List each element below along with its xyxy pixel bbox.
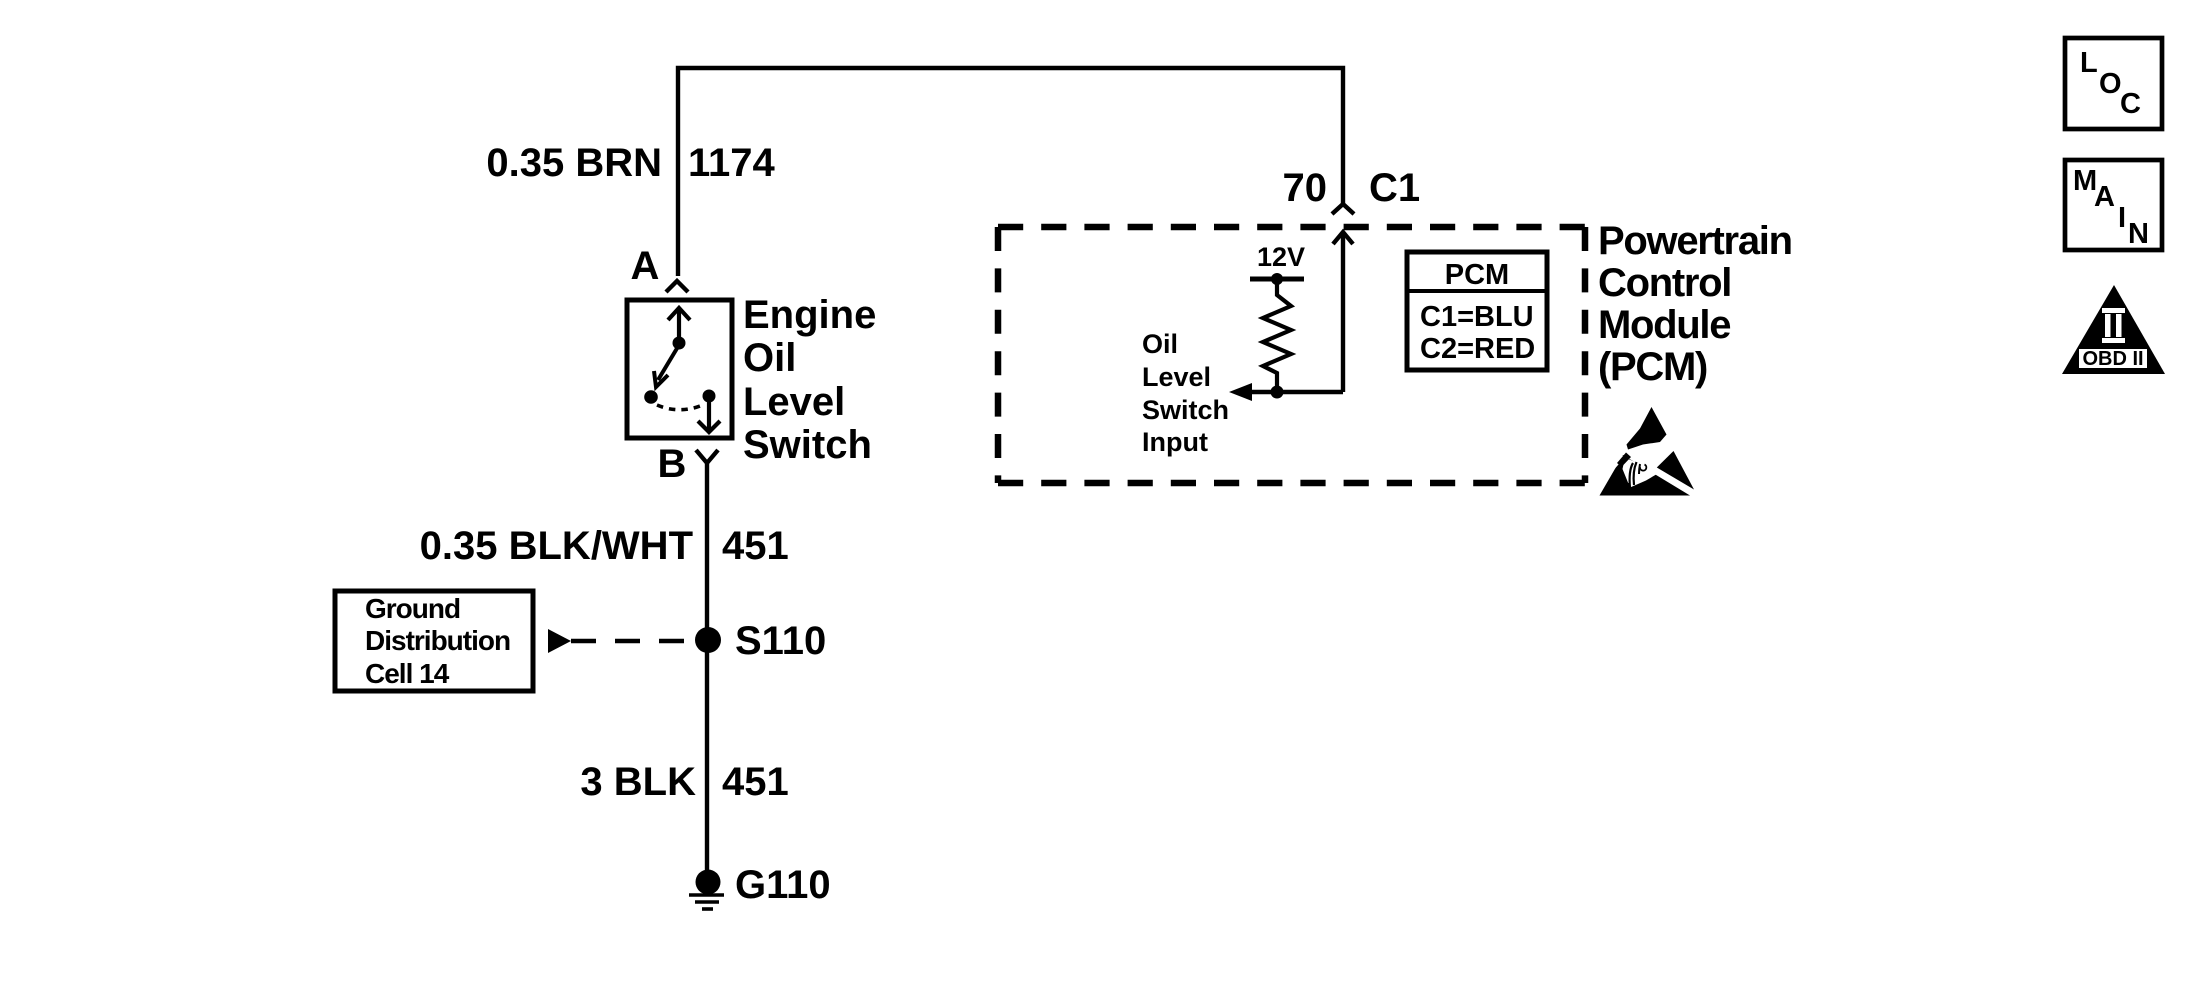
svg-text:0.35 BLK/WHT: 0.35 BLK/WHT <box>420 524 693 568</box>
svg-text:B: B <box>658 442 687 486</box>
connector half at switch pin B <box>696 450 718 463</box>
connector stem at pin B <box>705 463 709 478</box>
dashed reference line to splice S110 <box>571 639 695 644</box>
svg-text:Distribution: Distribution <box>365 625 510 656</box>
solid arrowhead to Oil Level Switch Input <box>1229 383 1252 401</box>
svg-text:451: 451 <box>722 524 789 568</box>
switch S1 pivot dot <box>673 337 686 350</box>
svg-text:Level: Level <box>743 380 845 424</box>
svg-text:Switch: Switch <box>743 423 872 467</box>
PCM dashed outline left edge <box>995 227 1002 483</box>
svg-text:N: N <box>2128 218 2149 250</box>
svg-text:Cell 14: Cell 14 <box>365 658 450 689</box>
splice junction S110 dot <box>695 627 721 653</box>
svg-text:Oil: Oil <box>1142 329 1178 359</box>
switch S1 blade arrowhead <box>654 371 668 387</box>
connector half at switch pin A <box>666 281 688 292</box>
svg-text:Ground: Ground <box>365 593 460 624</box>
OBD II label plate <box>2079 349 2147 368</box>
svg-text:Module: Module <box>1598 303 1730 347</box>
svg-text:OBD II: OBD II <box>2082 348 2143 370</box>
PCM connector legend table box <box>1407 252 1547 370</box>
switch S1 travel dashed arc <box>657 405 700 410</box>
ground symbol bar 3 <box>702 907 713 911</box>
svg-text:Oil: Oil <box>743 336 796 380</box>
12V supply rail <box>1250 277 1304 282</box>
junction dot on 12V rail <box>1271 273 1283 285</box>
svg-text:0.35 BRN: 0.35 BRN <box>486 141 662 185</box>
svg-text:Engine: Engine <box>743 293 876 337</box>
svg-text:Input: Input <box>1142 427 1208 457</box>
switch S1 right contact dot <box>703 390 716 403</box>
svg-text:A: A <box>2094 181 2115 213</box>
svg-text:C1: C1 <box>1369 166 1420 210</box>
svg-text:70: 70 <box>1283 166 1328 210</box>
ground distribution cell reference box <box>335 591 533 691</box>
svg-text:C: C <box>2120 88 2141 120</box>
svg-text:451: 451 <box>722 760 789 804</box>
svg-text:1174: 1174 <box>688 141 776 185</box>
svg-text:O: O <box>2099 68 2122 100</box>
switch S1 terminal A arrow shaft <box>677 308 681 341</box>
ground symbol bar 1 <box>689 893 724 897</box>
MAIN reference symbol box <box>2065 160 2162 250</box>
PCM dashed outline top edge <box>998 224 1585 231</box>
PCM dashed outline bottom edge <box>998 480 1585 487</box>
wire circuit 1174: switch pin A up, across top, down to PCM pin 70 <box>678 68 1343 276</box>
svg-text:Control: Control <box>1598 261 1731 305</box>
OBD II symbol triangle <box>2062 285 2165 374</box>
switch S1 Engine Oil Level Switch box <box>627 300 732 438</box>
svg-text:Powertrain: Powertrain <box>1598 219 1792 263</box>
switch S1 terminal B arrow shaft <box>707 398 711 429</box>
junction dot at resistor bottom <box>1271 386 1284 399</box>
ground G110 terminal dot <box>696 870 721 895</box>
ESD sensitivity symbol (hand touching device) <box>1600 407 1695 496</box>
wire: PCM internal lead from pin 70 down <box>1341 233 1345 392</box>
svg-text:Level: Level <box>1142 362 1211 392</box>
OBD II pillar glyph <box>2102 308 2125 343</box>
legend table header separator <box>1407 289 1547 293</box>
svg-text:(PCM): (PCM) <box>1598 345 1707 389</box>
svg-text:3 BLK: 3 BLK <box>580 760 696 804</box>
svg-text:L: L <box>2080 47 2098 79</box>
switch S1 terminal B arrowhead <box>698 421 720 432</box>
connector half at PCM pin 70 <box>1332 204 1354 214</box>
switch S1 left contact dot <box>644 390 658 404</box>
svg-text:12V: 12V <box>1257 242 1305 272</box>
ground symbol bar 2 <box>695 900 719 904</box>
reference solid arrowhead <box>548 629 571 653</box>
svg-text:A: A <box>631 244 660 288</box>
svg-text:S110: S110 <box>735 619 826 663</box>
svg-text:Switch: Switch <box>1142 395 1229 425</box>
wire: horizontal run to resistor bottom node <box>1251 390 1343 394</box>
switch S1 terminal A arrowhead <box>668 308 690 320</box>
PCM dashed outline right edge <box>1582 227 1589 483</box>
svg-text:C2=RED: C2=RED <box>1420 333 1535 365</box>
LOC reference symbol box <box>2065 38 2162 129</box>
svg-text:PCM: PCM <box>1445 259 1509 291</box>
svg-text:C1=BLU: C1=BLU <box>1420 301 1534 333</box>
resistor R1 pull-up zigzag <box>1263 281 1291 392</box>
connector half arrowhead inside PCM at pin 70 <box>1333 232 1353 244</box>
svg-text:G110: G110 <box>735 863 831 907</box>
switch S1 moving blade <box>658 345 679 380</box>
wire circuit 451: pin B down through S110 to G110 <box>705 478 709 870</box>
svg-text:I: I <box>2118 202 2126 234</box>
